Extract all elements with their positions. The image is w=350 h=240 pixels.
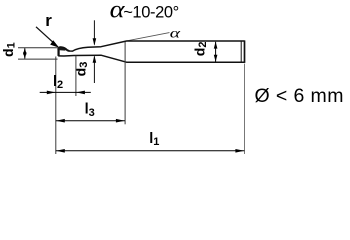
l1 arrow left	[56, 149, 65, 153]
label d2	[192, 42, 209, 57]
svg-text:~10-20°: ~10-20°	[123, 3, 179, 21]
d1 arrow up	[23, 48, 27, 55]
d3 upper dimension line	[93, 20, 95, 44]
svg-text:α: α	[170, 25, 182, 41]
extension line l3 right	[124, 42, 126, 124]
d2 dimension line	[215, 42, 217, 62]
tip radius dark blob	[58, 47, 66, 51]
d1 dimension line	[24, 48, 26, 58]
d2 arrow up	[214, 42, 218, 49]
tool outline: tip left face, radius bump, relief dip, neck and cone top, shank top	[58, 41, 244, 56]
d1 arrow down	[23, 52, 27, 59]
l3 arrow right	[116, 119, 125, 123]
l2 arrow pointing right from outside left	[47, 91, 56, 95]
d3 lower arrow up	[93, 55, 97, 62]
leader line r	[36, 27, 54, 43]
l1 dimension line	[56, 150, 245, 152]
tip left face thick	[57, 48, 59, 56]
extension line left at tool tip	[55, 57, 57, 155]
shank right end cap inner	[240, 41, 242, 62]
tip bump emphasis stroke	[58, 47, 69, 51]
d2 arrow down	[214, 55, 218, 62]
label d1	[0, 42, 17, 57]
svg-text:r: r	[45, 11, 52, 30]
svg-text:Ø < 6 mm: Ø < 6 mm	[255, 85, 344, 107]
l1 arrow right	[235, 149, 244, 153]
extension line l2 right	[75, 56, 77, 96]
arrowhead r leader	[50, 40, 59, 48]
shank right end cap outer	[244, 40, 246, 63]
l2 arrow pointing left from outside right	[76, 91, 85, 95]
d3 lower dimension line	[93, 56, 95, 83]
d3 upper arrow down	[93, 38, 97, 45]
tool outline: bottom edge of tip, neck, cone, shank bottom	[58, 55, 244, 62]
alpha extension line	[127, 33, 170, 41]
l3 arrow left	[56, 119, 65, 123]
l2 dimension line	[40, 91, 91, 93]
extension line l1 right	[244, 64, 246, 154]
d1 bottom extension line	[18, 58, 58, 60]
d1 top extension line	[18, 47, 58, 49]
label d3	[73, 62, 90, 77]
l3 dimension line	[56, 120, 125, 122]
